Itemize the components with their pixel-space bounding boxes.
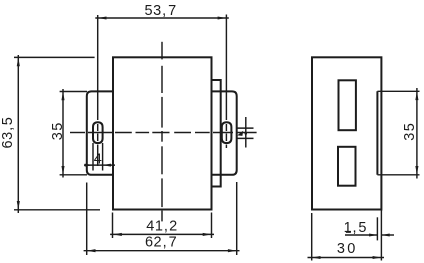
svg-text:35: 35 — [50, 122, 66, 140]
svg-text:41,2: 41,2 — [146, 219, 177, 235]
svg-text:62,7: 62,7 — [145, 235, 177, 251]
svg-text:63,5: 63,5 — [0, 117, 16, 149]
svg-text:4: 4 — [94, 152, 103, 168]
svg-text:1,5: 1,5 — [344, 220, 367, 236]
svg-text:53,7: 53,7 — [145, 3, 177, 19]
svg-text:35: 35 — [402, 123, 418, 141]
svg-text:30: 30 — [337, 241, 356, 257]
